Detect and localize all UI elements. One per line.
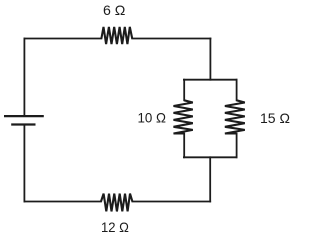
battery [4, 116, 44, 124]
label 15 ohm [260, 110, 290, 126]
wire left branch lower stub [183, 134, 185, 158]
wire left vertical lower (battery - to bottom-left corner) [23, 125, 25, 202]
wire left branch upper stub [183, 80, 185, 101]
svg-text:6 Ω: 6 Ω [103, 2, 125, 18]
label 12 ohm [101, 219, 129, 235]
wire top left segment [24, 38, 101, 40]
wire right branch upper stub [236, 80, 238, 101]
resistor 15 ohm (right parallel branch) [225, 100, 245, 133]
label 10 ohm [138, 110, 167, 126]
wire top right segment [132, 38, 210, 40]
svg-text:15 Ω: 15 Ω [260, 110, 290, 126]
wire right branch lower stub [236, 134, 238, 158]
resistor 6 ohm (top) [101, 27, 132, 44]
wire middle drop from parallel to bottom [209, 157, 211, 201]
label 6 ohm [103, 2, 125, 18]
wire right drop to parallel junction [209, 39, 211, 80]
resistor 12 ohm (bottom) [101, 194, 132, 212]
wire bottom right segment [132, 201, 210, 203]
wire top bar of parallel branches [184, 79, 237, 81]
svg-text:10 Ω: 10 Ω [138, 110, 167, 126]
svg-text:12 Ω: 12 Ω [101, 219, 129, 235]
wire left vertical upper (battery + to top-left corner) [23, 39, 25, 116]
wire bottom bar of parallel branches [184, 156, 237, 158]
wire bottom left segment [24, 201, 101, 203]
resistor 10 ohm (left parallel branch) [174, 100, 193, 133]
